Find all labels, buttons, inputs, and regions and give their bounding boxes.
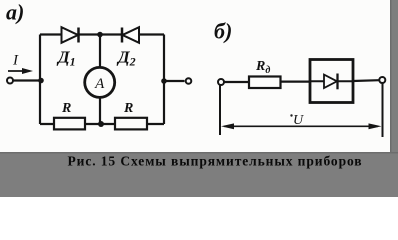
current arrow I xyxy=(8,68,33,74)
diode Д1 xyxy=(62,27,79,43)
wire: left measure tick xyxy=(219,85,221,135)
wire: terminal to Rд xyxy=(224,81,249,83)
wire: circuit a outer loop xyxy=(40,35,164,125)
junction left rail xyxy=(38,78,44,84)
rectifier box xyxy=(310,60,353,103)
diode in rectifier box xyxy=(324,74,338,90)
wire: ammeter branch vertical xyxy=(99,35,101,125)
resistor Rд xyxy=(249,77,281,89)
diode Д2 xyxy=(122,27,139,43)
output terminal (node) xyxy=(186,78,192,84)
dimension arrow U xyxy=(221,123,382,129)
wire: through rectifier box xyxy=(310,80,353,82)
svg-text:A: A xyxy=(94,76,105,92)
left terminal b (node) xyxy=(218,79,224,85)
svg-text:R: R xyxy=(61,101,71,116)
ammeter A xyxy=(85,67,115,97)
wire: right measure tick xyxy=(382,84,384,138)
svg-text:U: U xyxy=(293,113,304,128)
junction top rail xyxy=(97,32,103,38)
wire: Rд to rectifier box xyxy=(281,80,311,82)
svg-text:а): а) xyxy=(6,0,24,25)
junction right rail xyxy=(161,78,167,84)
svg-text:I: I xyxy=(12,53,19,69)
junction bottom rail xyxy=(98,121,104,127)
right terminal b (node) xyxy=(379,77,385,83)
input terminal (node) xyxy=(7,78,13,84)
wire: box to right terminal xyxy=(353,79,379,82)
wire: to output terminal xyxy=(164,80,185,82)
wire: input to left rail xyxy=(13,79,41,81)
resistor R (left) xyxy=(54,118,85,130)
resistor R (right) xyxy=(115,118,147,130)
svg-text:R: R xyxy=(123,101,133,116)
svg-text:б): б) xyxy=(214,19,232,44)
svg-text:Рис. 15 Схемы выпрямительных п: Рис. 15 Схемы выпрямительных приборов xyxy=(68,154,363,169)
